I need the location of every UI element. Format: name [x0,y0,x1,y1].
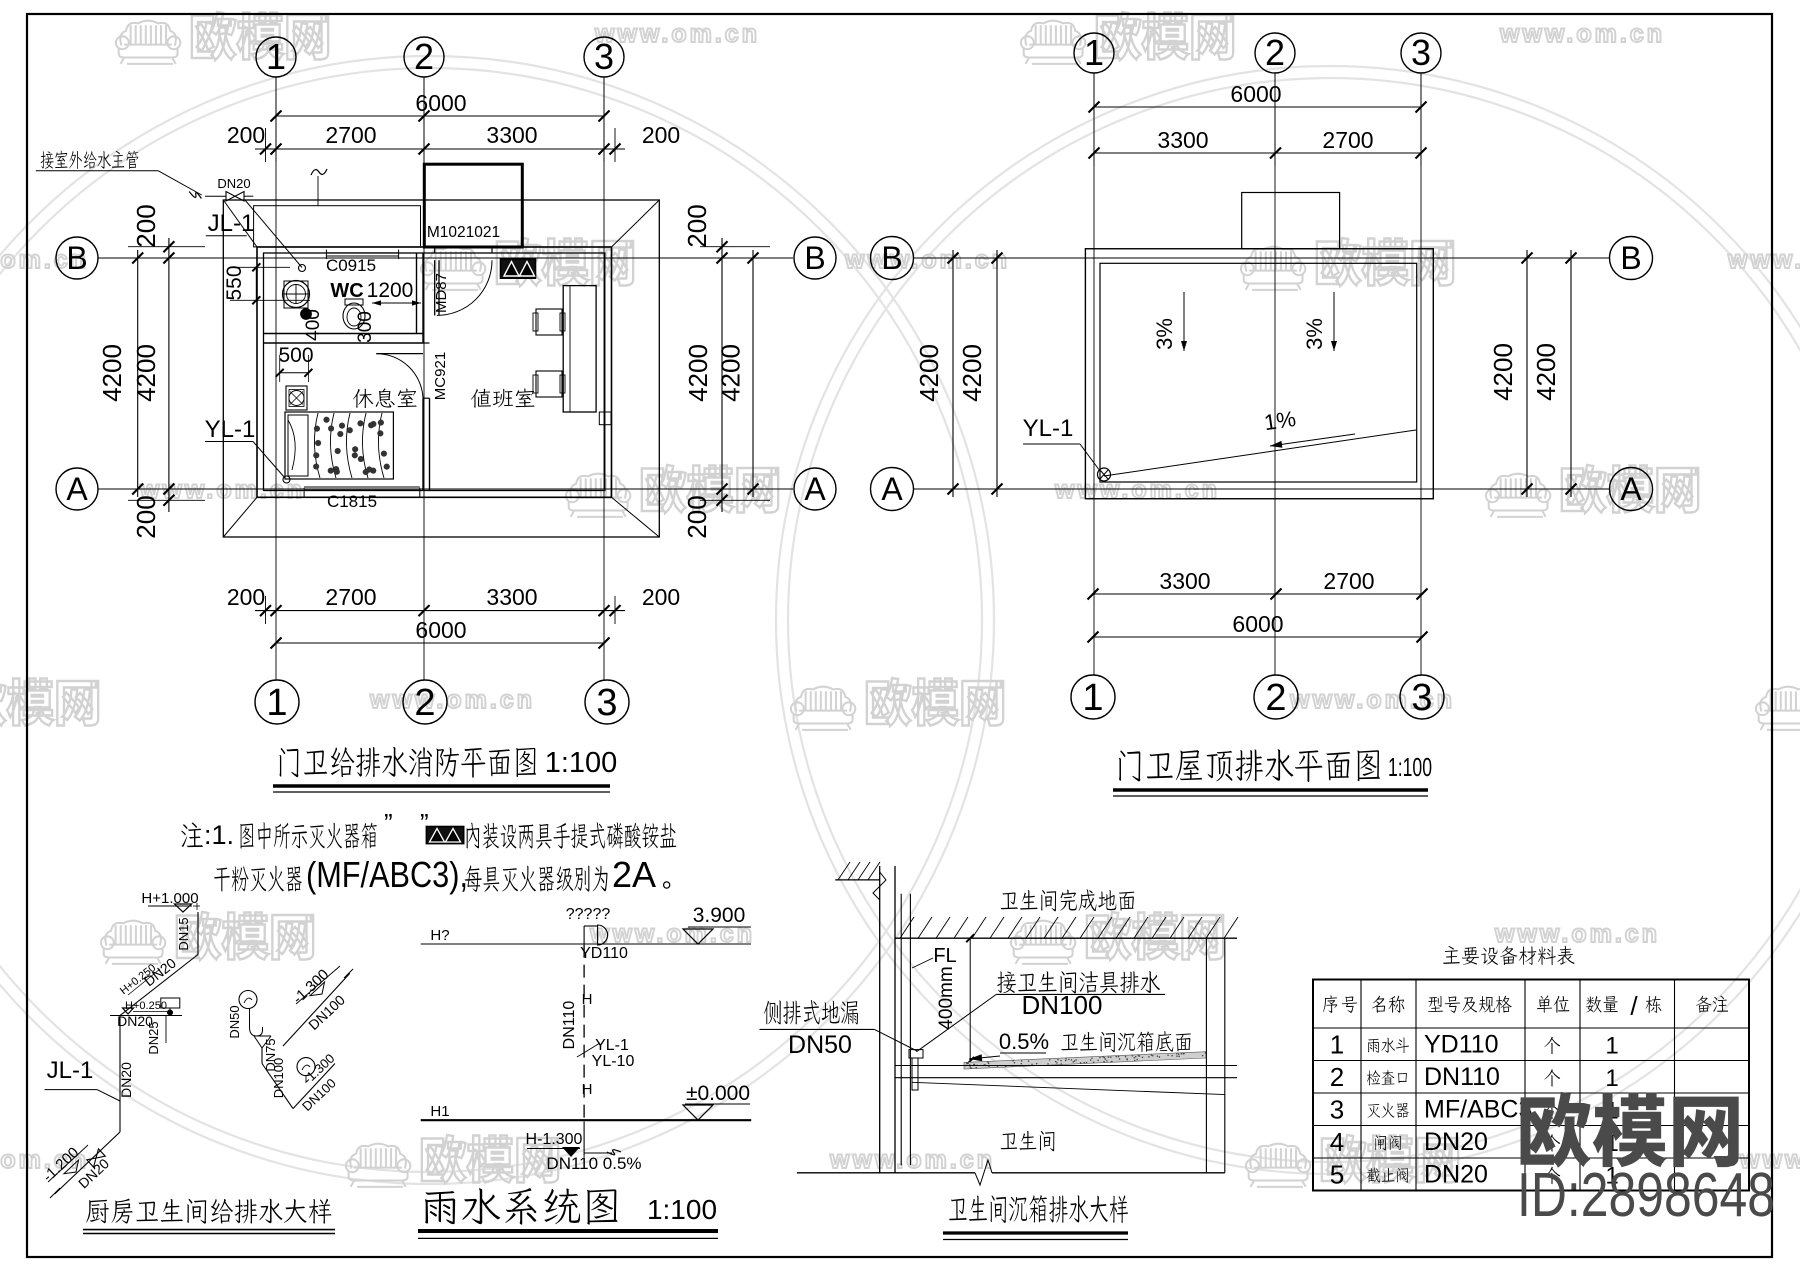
svg-text:1: 1 [266,36,286,77]
svg-text:www.om.cn: www.om.cn [369,686,535,714]
svg-text:YL-1: YL-1 [1023,415,1074,442]
svg-text:3.900: 3.900 [693,904,746,927]
svg-text:MD87: MD87 [433,273,450,313]
svg-text:1%: 1% [1262,406,1297,435]
svg-text:4200: 4200 [1488,343,1518,401]
svg-text:H: H [582,991,593,1008]
svg-text:A: A [1620,471,1642,507]
svg-text:200: 200 [682,495,712,538]
svg-text:www.om.cn: www.om.cn [1054,476,1220,504]
svg-text:B: B [881,240,902,276]
svg-text:3: 3 [1411,32,1431,73]
svg-text:”: ” [384,808,393,838]
svg-text:DN25: DN25 [146,1021,161,1054]
svg-text:200: 200 [227,584,265,610]
svg-text:2: 2 [1265,677,1286,719]
svg-text:200: 200 [682,204,712,247]
svg-text:www.om.cn: www.om.cn [844,246,1010,274]
svg-text:6000: 6000 [1230,81,1281,107]
svg-text:1: 1 [1605,1065,1618,1092]
svg-text:4200: 4200 [716,344,746,402]
svg-text:。: 。 [662,866,686,893]
svg-text:H-1.300: H-1.300 [526,1131,583,1148]
svg-text:WC: WC [330,280,363,302]
svg-text:H1: H1 [430,1103,449,1120]
svg-text:JL-1: JL-1 [208,210,255,237]
svg-text:1: 1 [1330,1029,1344,1059]
svg-text:2A: 2A [612,854,656,895]
svg-text:2: 2 [414,36,434,77]
svg-text:1: 1 [266,682,287,724]
svg-text:4200: 4200 [914,344,944,402]
svg-text:2700: 2700 [1322,127,1373,153]
svg-text:4200: 4200 [131,344,161,402]
svg-text:DN110: DN110 [1424,1063,1500,1091]
svg-text:2700: 2700 [325,122,376,148]
svg-text:200: 200 [642,584,680,610]
svg-text:C1815: C1815 [327,492,377,511]
svg-text:1200: 1200 [367,279,414,302]
svg-text:2: 2 [414,682,435,724]
svg-text:1:100: 1:100 [1388,752,1432,782]
svg-text:300: 300 [355,311,376,343]
svg-text:www.om.cn: www.om.cn [829,1146,995,1174]
svg-text:FL: FL [933,945,956,967]
svg-text:1: 1 [1084,32,1104,73]
svg-text:DN50: DN50 [227,1005,242,1038]
svg-text:C0915: C0915 [326,256,376,275]
svg-text:JL-1: JL-1 [47,1057,94,1084]
svg-text:DN20: DN20 [1424,1128,1488,1156]
svg-text:3300: 3300 [1157,127,1208,153]
svg-text:DN100: DN100 [271,1058,286,1098]
svg-text:H?: H? [430,927,449,944]
svg-text:4200: 4200 [683,344,713,402]
svg-text:400mm: 400mm [936,966,957,1029]
svg-text:/: / [1630,991,1638,1021]
svg-text:200: 200 [131,204,161,247]
svg-text:YD110: YD110 [580,945,628,962]
svg-text:B: B [804,240,825,276]
svg-text:6000: 6000 [415,617,466,643]
svg-text:3: 3 [1411,677,1432,719]
svg-text:200: 200 [131,495,161,538]
svg-text:?????: ????? [566,906,611,923]
svg-text:MC921: MC921 [432,352,449,400]
svg-text:1: 1 [1605,1032,1618,1059]
svg-text:6000: 6000 [415,90,466,116]
svg-text:DN50: DN50 [788,1031,852,1059]
svg-text:3300: 3300 [1159,568,1210,594]
svg-text:3%: 3% [1302,318,1327,350]
svg-text:4200: 4200 [97,344,127,402]
svg-text:4200: 4200 [1531,343,1561,401]
svg-text:A: A [804,471,826,507]
svg-text:M1021021: M1021021 [427,224,500,241]
svg-text:2700: 2700 [1323,568,1374,594]
svg-text:±0.000: ±0.000 [686,1082,750,1105]
svg-text:550: 550 [223,265,246,300]
svg-text:3: 3 [596,682,617,724]
svg-text:DN15: DN15 [176,917,191,950]
svg-text:4: 4 [1330,1127,1344,1157]
svg-text:(MF/ABC3),: (MF/ABC3), [306,854,468,895]
svg-text:3: 3 [594,36,614,77]
svg-text:3300: 3300 [486,122,537,148]
svg-text:3%: 3% [1152,318,1177,350]
svg-text:400: 400 [303,309,324,341]
svg-text:YL-1: YL-1 [205,416,256,443]
svg-text:DN100: DN100 [1022,990,1103,1020]
svg-text:5: 5 [1330,1159,1344,1189]
svg-text:6000: 6000 [1232,611,1283,637]
svg-text:www.om.cn: www.om.cn [1494,920,1660,948]
svg-text:ID:2898648: ID:2898648 [1517,1161,1775,1230]
svg-text:0.5%: 0.5% [999,1029,1049,1054]
svg-text:DN110 0.5%: DN110 0.5% [546,1154,641,1173]
svg-text:H: H [582,1081,593,1098]
svg-text:YD110: YD110 [1424,1030,1499,1058]
svg-text:DN20: DN20 [118,1062,134,1098]
svg-text::1.: :1. [204,820,234,850]
svg-text:1:100: 1:100 [545,747,618,779]
svg-text:4200: 4200 [957,344,987,402]
svg-text:1: 1 [1082,677,1103,719]
svg-text:DN110: DN110 [561,1001,578,1050]
svg-text:YL-10: YL-10 [592,1053,635,1070]
svg-text:2700: 2700 [325,584,376,610]
svg-text:3300: 3300 [486,584,537,610]
svg-text:3: 3 [1330,1094,1344,1124]
svg-text:2: 2 [1265,32,1285,73]
svg-text:1:100: 1:100 [647,1194,717,1225]
svg-text:200: 200 [227,122,265,148]
svg-text:A: A [66,471,88,507]
svg-text:DN20: DN20 [1424,1160,1488,1188]
svg-text:YL-1: YL-1 [595,1037,629,1054]
svg-text:B: B [1620,240,1641,276]
svg-text:MF/ABC3: MF/ABC3 [1424,1095,1532,1123]
svg-text:A: A [881,471,903,507]
svg-text:www.om.cn: www.om.cn [1727,246,1800,274]
svg-text:B: B [66,240,87,276]
svg-text:DN20: DN20 [217,176,250,191]
svg-text:www.om.cn: www.om.cn [1499,20,1665,48]
svg-text:2: 2 [1330,1062,1344,1092]
svg-text:200: 200 [642,122,680,148]
